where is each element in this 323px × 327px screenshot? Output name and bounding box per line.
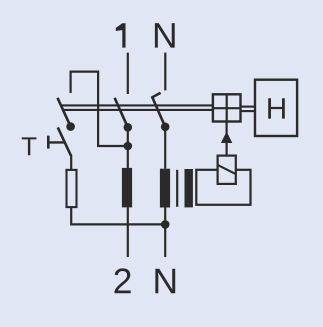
terminal label 1	[116, 23, 126, 47]
terminal label N bottom	[155, 269, 175, 293]
junction dot: pole 1 contact	[124, 123, 133, 132]
trip linkage wire	[226, 122, 228, 156]
junction dot: test tap contact	[66, 122, 75, 131]
switch contact blade: test tap pole	[58, 98, 71, 127]
mechanical coupling bus (double line)	[62, 104, 213, 106]
wire: pole 1 below CT to terminal 2	[127, 207, 129, 257]
CT secondary winding bar	[185, 169, 193, 207]
wire: neutral down to CT	[164, 127, 166, 169]
wire: neutral below CT to terminal N	[164, 207, 166, 257]
terminal label 2	[115, 268, 131, 293]
CT primary bar neutral	[160, 169, 170, 208]
wire: terminal N feed	[164, 53, 166, 91]
relay K1 box	[218, 156, 236, 184]
switch contact blade: pole 1	[115, 98, 128, 128]
handle box H	[255, 80, 297, 136]
wire: terminal 1 feed	[127, 53, 129, 94]
terminal label N top	[155, 23, 175, 47]
junction dot: test wire / neutral	[161, 220, 170, 229]
secondary circuit loop	[196, 170, 250, 205]
CT core line	[176, 170, 178, 207]
junction dot: neutral contact	[161, 123, 170, 132]
junction dot: pole 1 / jumper	[124, 142, 133, 151]
relay K1 diagonal	[218, 165, 236, 174]
handle label H	[268, 98, 285, 118]
test button label T	[22, 137, 37, 155]
wire: resistor to neutral junction	[71, 207, 165, 224]
CT primary bar pole 1	[122, 168, 132, 208]
wire: double link to handle	[241, 106, 256, 108]
switch contact blade: neutral pole (with hook)	[152, 93, 165, 127]
test resistor R1	[67, 170, 77, 207]
trip coil crossed box	[213, 94, 241, 121]
wire: pole 1 down to CT	[127, 127, 129, 168]
test switch blade	[58, 127, 71, 155]
wire: test-contact jumper loop	[71, 72, 128, 146]
trip linkage arrow	[221, 132, 232, 144]
test button actuator T-bar	[47, 136, 50, 149]
wire: test switch to resistor	[70, 155, 72, 170]
